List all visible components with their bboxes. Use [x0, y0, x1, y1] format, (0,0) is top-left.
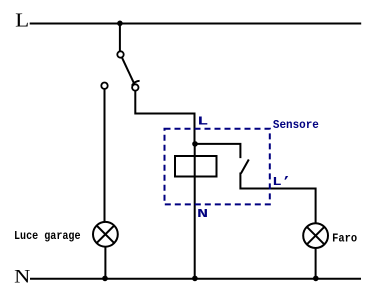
svg-text:N: N [14, 265, 30, 287]
svg-text:L’: L’ [272, 176, 291, 190]
svg-text:Luce garage: Luce garage [14, 229, 81, 243]
svg-text:Sensore: Sensore [273, 118, 319, 132]
svg-text:N: N [197, 207, 208, 221]
svg-text:L: L [15, 9, 29, 31]
svg-text:Faro: Faro [332, 231, 357, 245]
svg-text:L: L [197, 115, 208, 129]
